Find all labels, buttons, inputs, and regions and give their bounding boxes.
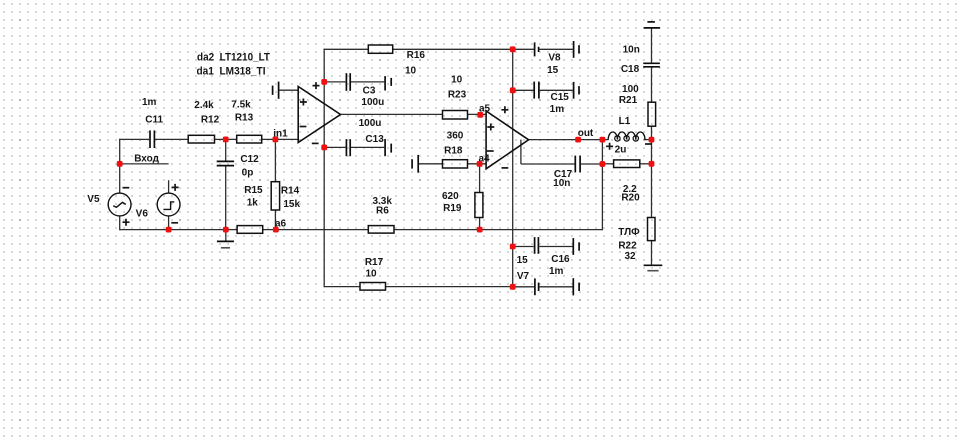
svg-text:C3: C3 xyxy=(363,86,376,97)
svg-text:L1: L1 xyxy=(619,116,631,127)
capacitor C12 xyxy=(217,160,234,162)
svg-text:100u: 100u xyxy=(361,97,384,108)
inductor L1 xyxy=(608,132,645,140)
junction dot node out junction xyxy=(575,137,581,143)
wire C12 branch x=225.7 xyxy=(225,139,227,160)
capacitor C16 xyxy=(534,237,536,254)
junction dot node a5 junction xyxy=(477,112,483,118)
wire R20 row y=163.8 xyxy=(602,163,613,165)
capacitor C3 xyxy=(345,73,347,91)
svg-text:360: 360 xyxy=(447,130,464,141)
junction dot junction C17/R20 xyxy=(600,161,606,167)
terminal at V7 right xyxy=(572,278,574,295)
wire C3 row y=81.9 xyxy=(324,81,345,83)
wire top feedback net y=49.3 xyxy=(324,48,369,50)
capacitor C17 xyxy=(574,156,576,173)
svg-text:C15: C15 xyxy=(551,92,570,103)
svg-text:10: 10 xyxy=(405,66,417,77)
wire left rail x=119.7 (V5 branch) xyxy=(119,139,121,193)
wire node Вход label line xyxy=(120,163,169,165)
U1 positive supply plus sign xyxy=(313,82,320,89)
svg-text:R17: R17 xyxy=(365,257,384,268)
resistor R19 body (vertical) xyxy=(475,193,483,218)
L1 plus sign xyxy=(606,143,613,150)
svg-text:1k: 1k xyxy=(247,198,259,209)
svg-text:10n: 10n xyxy=(553,178,570,189)
svg-text:C18: C18 xyxy=(621,64,640,75)
resistor R18 body xyxy=(443,160,468,168)
svg-text:R15: R15 xyxy=(244,185,263,196)
svg-text:R6: R6 xyxy=(376,205,389,216)
V5 minus sign xyxy=(123,187,130,189)
svg-text:C11: C11 xyxy=(145,115,163,126)
svg-text:R19: R19 xyxy=(443,203,462,214)
junction dot junction R12/R13/C12 xyxy=(223,137,229,143)
terminal at C3 right xyxy=(384,76,386,90)
wire V7 row y=286.8 xyxy=(513,286,534,288)
wire C15 row y=90.3 xyxy=(513,89,534,91)
junction dot node a6 junction xyxy=(273,227,279,233)
svg-text:10n: 10n xyxy=(623,44,640,55)
svg-text:da1 LM318_TI: da1 LM318_TI xyxy=(197,66,266,78)
U1 inside plus xyxy=(300,99,307,106)
svg-text:1m: 1m xyxy=(550,104,565,115)
junction dot junction rail/C3 xyxy=(321,79,327,85)
svg-text:1m: 1m xyxy=(142,97,157,108)
junction dot junction C12/ground rail xyxy=(223,227,229,233)
capacitor C18 xyxy=(643,62,660,64)
U2 negative supply minus sign xyxy=(502,167,509,169)
svg-text:10: 10 xyxy=(451,74,463,85)
wire C17 row y=164.0 xyxy=(521,163,575,165)
svg-text:15: 15 xyxy=(517,255,529,266)
junction dot junction rail/V7 row xyxy=(510,284,516,290)
svg-text:C16: C16 xyxy=(551,254,570,265)
wire R17 row y=286.6 xyxy=(324,286,360,288)
svg-text:V5: V5 xyxy=(87,194,100,205)
wire bottom ground rail y=229.6 xyxy=(119,229,237,231)
svg-text:R21: R21 xyxy=(619,95,638,106)
svg-text:32: 32 xyxy=(624,251,636,262)
resistor R22 body (vertical) xyxy=(648,218,656,241)
svg-text:R22: R22 xyxy=(618,241,637,252)
ground below C12 xyxy=(217,240,234,242)
V6 plus sign xyxy=(172,184,179,191)
svg-text:1m: 1m xyxy=(549,266,564,277)
svg-text:V8: V8 xyxy=(548,53,561,64)
resistor R13 body xyxy=(237,135,262,143)
op-amp U2 triangle xyxy=(486,111,528,169)
terminal at V8 right xyxy=(573,41,575,58)
resistor R15 body xyxy=(237,226,263,234)
source V5 (sine) xyxy=(108,193,131,216)
wire U1 output to R23 y=114.4 xyxy=(340,113,443,115)
resistor R16 body xyxy=(368,45,392,53)
resistor R20 body xyxy=(614,160,640,168)
wire U2 output net y=139.6 xyxy=(528,139,608,141)
junction dot junction L1/R21 column xyxy=(649,137,655,143)
wire right supply rail x=512.7 xyxy=(512,49,514,288)
svg-text:R18: R18 xyxy=(444,146,463,157)
L1 minus sign xyxy=(645,143,652,145)
terminal before R18 xyxy=(411,159,413,168)
svg-text:C13: C13 xyxy=(365,134,384,145)
svg-text:R16: R16 xyxy=(407,50,426,61)
wire C16 row y=246.5 xyxy=(513,246,534,248)
svg-text:2u: 2u xyxy=(615,144,627,155)
wire main input net y=139.4 xyxy=(120,138,149,140)
junction dot junction R20/column xyxy=(649,161,655,167)
ground bottom right xyxy=(644,264,663,266)
V6 minus sign xyxy=(171,222,178,224)
wire right column x=651.5 mid section xyxy=(651,126,653,217)
wire ground stub under C12 xyxy=(225,230,227,242)
junction dot junction top net/V8 xyxy=(510,46,516,52)
terminal at C15 right xyxy=(573,82,575,99)
svg-text:da2 LT1210_LT: da2 LT1210_LT xyxy=(197,51,270,63)
svg-text:100u: 100u xyxy=(359,118,382,129)
junction dot node in1 junction xyxy=(273,137,279,143)
svg-text:15k: 15k xyxy=(283,199,300,210)
resistor R21 body (vertical) xyxy=(648,102,656,126)
wire R18 row y=163.8 xyxy=(419,163,443,165)
svg-text:0p: 0p xyxy=(242,168,254,179)
U2 inside minus xyxy=(487,150,494,152)
wire V8 to terminal y=49.3 xyxy=(539,48,573,50)
wire output to ground drop x=602.4 xyxy=(601,140,603,231)
wire right column x=651.5 bottom to ground xyxy=(651,241,653,266)
svg-text:ТЛФ: ТЛФ xyxy=(618,227,640,238)
junction dot junction V6/ground rail xyxy=(166,227,172,233)
svg-text:100: 100 xyxy=(622,84,639,95)
svg-text:R20: R20 xyxy=(621,192,640,203)
terminal at C13 right xyxy=(384,139,386,156)
wire R14 branch x=275.4 xyxy=(274,139,276,181)
junction dot junction R19/ground rail xyxy=(477,227,483,233)
terminal at C16 right xyxy=(572,238,574,255)
junction dot node Вход junction xyxy=(117,161,123,167)
svg-text:R14: R14 xyxy=(281,186,300,197)
op-amp U1 triangle xyxy=(298,87,340,143)
svg-text:R23: R23 xyxy=(448,90,467,101)
svg-text:R12: R12 xyxy=(201,114,220,125)
svg-text:620: 620 xyxy=(442,191,459,202)
svg-text:2.4k: 2.4k xyxy=(194,100,214,111)
wire feedback drop x=520.9 xyxy=(520,140,522,164)
wire a4 to R19 x=479.6 xyxy=(479,164,481,193)
V5 plus sign xyxy=(123,219,130,226)
svg-text:Вход: Вход xyxy=(134,154,159,165)
junction dot junction out/drop xyxy=(600,137,606,143)
svg-text:V7: V7 xyxy=(517,271,530,282)
svg-text:10: 10 xyxy=(365,269,377,280)
capacitor C11 xyxy=(149,130,151,148)
terminal at U1 noninverting input xyxy=(272,86,274,95)
wire left supply rail x=324.2 xyxy=(323,49,325,288)
U1 negative supply minus sign xyxy=(312,142,319,144)
capacitor C15 xyxy=(533,82,535,99)
battery V8 xyxy=(534,42,536,56)
U2 positive supply plus sign xyxy=(501,106,508,113)
battery V7 xyxy=(534,278,536,295)
resistor R6 body xyxy=(368,226,394,234)
junction dot junction rail/C15 xyxy=(510,87,516,93)
U1 inside minus xyxy=(300,126,307,128)
wire C13 row y=147.4 xyxy=(324,146,345,148)
resistor R17 body xyxy=(360,283,386,291)
junction dot junction rail/C16 xyxy=(510,244,516,250)
U2 inside plus xyxy=(487,124,494,131)
wire V6 stubs xyxy=(168,180,170,193)
source V6 (step) xyxy=(157,193,180,216)
svg-text:7.5k: 7.5k xyxy=(231,99,251,110)
resistor R12 body xyxy=(188,135,214,143)
wire op-amp U1 noninverting input y=90.2 xyxy=(279,89,298,91)
resistor R23 body xyxy=(443,111,468,120)
svg-text:V6: V6 xyxy=(136,208,149,219)
svg-text:C12: C12 xyxy=(240,154,259,165)
inverted ground top right xyxy=(647,21,655,23)
svg-text:15: 15 xyxy=(547,65,559,76)
junction dot junction rail/C13 xyxy=(321,145,327,151)
svg-text:R13: R13 xyxy=(235,113,254,124)
capacitor C13 xyxy=(345,139,347,156)
junction dot node a4 junction xyxy=(477,161,483,167)
wire right column x=651.5 top section xyxy=(651,28,653,63)
resistor R14 body (vertical) xyxy=(271,182,279,210)
